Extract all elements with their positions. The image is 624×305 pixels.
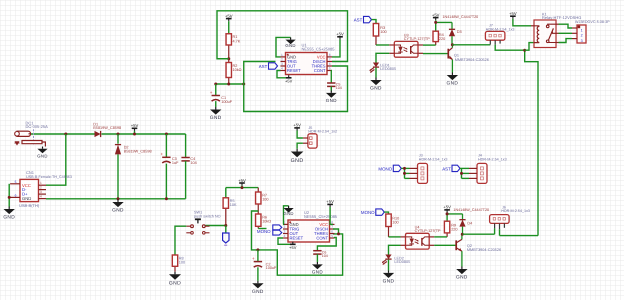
svg-text:+5V: +5V — [509, 11, 517, 16]
svg-text:+5V: +5V — [131, 123, 139, 128]
net label AST at U1 OUT — [269, 63, 278, 69]
svg-text:MONO: MONO — [257, 229, 271, 234]
resistor R3 100 — [375, 36, 377, 45]
svg-text:AST: AST — [354, 18, 363, 23]
wire R6 to TRIG flags — [258, 228, 266, 230]
svg-text:B5819W_C8598: B5819W_C8598 — [93, 126, 121, 130]
svg-text:USB-B(TH): USB-B(TH) — [19, 203, 40, 208]
svg-text:CYTLP-127(TP: CYTLP-127(TP — [404, 37, 430, 41]
ground for R8 — [169, 272, 181, 287]
svg-text:GND: GND — [456, 275, 468, 281]
svg-text:5: 5 — [15, 180, 17, 184]
svg-text:1: 1 — [581, 28, 583, 32]
wire Q2 collector node — [461, 234, 463, 239]
svg-text:D4: D4 — [467, 221, 472, 225]
wire R3 to opto anode — [376, 44, 389, 46]
svg-text:GND: GND — [210, 115, 222, 121]
power flag +5V mono — [238, 178, 246, 186]
ground for USB shell — [3, 207, 15, 221]
svg-text:+5V: +5V — [293, 123, 301, 128]
ground for C6 — [312, 262, 323, 275]
svg-text:GND: GND — [383, 279, 395, 285]
wire GND rail — [46, 198, 186, 200]
power flag +5V for R1 — [225, 13, 233, 21]
wire rail after D1 — [102, 133, 186, 135]
ground flag above U1 — [276, 37, 291, 57]
transistor Q1 MMBT3904 — [423, 53, 448, 55]
wires J3 tie — [401, 167, 409, 169]
svg-text:100: 100 — [179, 261, 185, 265]
svg-text:5: 5 — [331, 234, 333, 238]
svg-text:GND: GND — [326, 98, 337, 103]
svg-text:3: 3 — [40, 190, 42, 194]
svg-text:3: 3 — [281, 62, 283, 66]
svg-text:HDR-M-2.54_1x3: HDR-M-2.54_1x3 — [486, 27, 515, 31]
capacitor C6 104 at U2 CONT — [317, 238, 336, 251]
wire R7/R6 node to C2 and THRES loop — [252, 211, 343, 275]
svg-text:4.7K: 4.7K — [233, 39, 241, 43]
wire opto collector to R4 — [423, 44, 436, 46]
wire switch to R8 — [175, 226, 186, 255]
svg-text:4: 4 — [284, 234, 286, 238]
svg-text:6: 6 — [15, 193, 17, 197]
svg-text:+5V: +5V — [289, 245, 297, 250]
transistor Q2 MMBT3904 — [434, 244, 456, 246]
resistor R8 100 — [174, 266, 176, 271]
wire DISCH to THRES U2 — [333, 229, 339, 234]
svg-text:GND: GND — [312, 270, 323, 275]
ground for LED2 — [383, 270, 395, 284]
CN1 shell pins 5 6 — [10, 183, 20, 185]
svg-text:100uF: 100uF — [266, 266, 277, 270]
svg-text:3: 3 — [284, 230, 286, 234]
wire R2 to C1 node — [216, 83, 244, 85]
DC jack DC1 DC-005-25A — [15, 129, 46, 146]
node R1-R2 DISCH — [227, 57, 230, 60]
svg-text:HDR-M-2.54_1x2: HDR-M-2.54_1x2 — [308, 130, 337, 134]
svg-text:GND: GND — [285, 43, 295, 48]
ground for C1 — [210, 107, 222, 121]
+5V at U1 VCC — [332, 39, 340, 57]
svg-text:NE555_C5+25085: NE555_C5+25085 — [304, 214, 338, 219]
svg-text:HDR-M-2.54_1x3: HDR-M-2.54_1x3 — [478, 157, 507, 161]
svg-text:+5V: +5V — [336, 32, 344, 37]
svg-text:+5V: +5V — [326, 199, 334, 204]
USB connector CN1 USB-B-Female-TH_C46363 — [20, 179, 39, 201]
wire loop bottom to J6 pin2 — [500, 235, 539, 237]
svg-text:4: 4 — [40, 195, 42, 199]
svg-text:2: 2 — [40, 186, 42, 190]
ground on rail — [112, 200, 124, 214]
ground for DC jack sleeve — [37, 147, 47, 159]
svg-text:+: + — [210, 90, 213, 95]
svg-text:MONO: MONO — [361, 210, 375, 215]
svg-text:MMBT3904-C20526: MMBT3904-C20526 — [455, 58, 489, 62]
svg-text:+5V: +5V — [443, 205, 451, 210]
capacitor C2 100uF — [257, 250, 259, 262]
svg-text:CONT: CONT — [316, 236, 328, 241]
resistor R2 10k — [228, 59, 230, 63]
diode D1 B5819W_C8598 — [95, 131, 101, 137]
wire opto collector to R9 — [434, 236, 447, 238]
svg-text:+5V: +5V — [285, 78, 293, 83]
ground for C2 — [252, 281, 264, 295]
ground flag above U2 — [283, 206, 289, 225]
svg-text:MMBT3904-C20526: MMBT3904-C20526 — [467, 248, 501, 252]
svg-text:WJ3EDGVC-5.08-3P: WJ3EDGVC-5.08-3P — [575, 20, 610, 24]
svg-text:5: 5 — [329, 67, 331, 71]
svg-text:2: 2 — [281, 58, 283, 62]
net flag down at switch node — [225, 226, 227, 233]
wire Q2 collector to J6 pin1 — [463, 233, 495, 235]
net label MONO at U2 TRIG — [273, 225, 282, 230]
wire collector to J7 pin1 — [452, 44, 490, 46]
svg-text:104: 104 — [336, 86, 342, 90]
svg-text:10kΩ: 10kΩ — [233, 68, 242, 72]
svg-text:10K: 10K — [230, 203, 237, 207]
svg-text:RESET: RESET — [290, 236, 304, 241]
svg-text:GND: GND — [447, 81, 459, 87]
svg-text:220: 220 — [451, 228, 457, 232]
junction GND rail — [117, 197, 120, 200]
wire Q1 collector node — [451, 45, 453, 48]
wire +5V rail from DC jack — [30, 133, 94, 135]
svg-text:+5V: +5V — [432, 12, 440, 17]
svg-text:GND: GND — [252, 289, 264, 295]
svg-text:+: + — [160, 152, 163, 157]
wire Q1 emitter to ground — [451, 60, 453, 73]
ground for LED1 — [370, 78, 382, 92]
svg-text:8: 8 — [329, 53, 331, 57]
svg-text:CYTLP-127(TP: CYTLP-127(TP — [415, 229, 441, 233]
svg-text:+5V: +5V — [238, 178, 246, 183]
CN1 right pin stubs — [39, 184, 47, 186]
svg-text:2: 2 — [284, 225, 286, 229]
net label MONO bottom — [376, 209, 385, 215]
wire from rail to USB VCC — [46, 134, 66, 185]
svg-text:6: 6 — [329, 62, 331, 66]
+5V for J5 — [293, 123, 301, 131]
svg-text:D3: D3 — [457, 30, 462, 34]
svg-text:1uF: 1uF — [172, 161, 179, 165]
LED LED2 LED0805 — [389, 245, 401, 254]
resistor R6 10k — [257, 226, 259, 228]
wire TRIG THRES net — [244, 62, 348, 112]
svg-text:6: 6 — [331, 230, 333, 234]
wire right loop down — [525, 50, 538, 235]
svg-text:1N4148W_C4447T20: 1N4148W_C4447T20 — [443, 15, 479, 19]
svg-text:+: + — [252, 256, 255, 261]
svg-text:100: 100 — [380, 30, 386, 34]
op IC U1 NE555 — [286, 53, 328, 75]
node junction DC out — [64, 133, 67, 136]
svg-text:220: 220 — [439, 37, 445, 41]
svg-text:GND: GND — [283, 211, 293, 216]
wire J6 pin1 down to Q2 wire — [494, 228, 496, 234]
svg-text:4: 4 — [281, 67, 283, 71]
svg-text:1: 1 — [40, 181, 42, 185]
svg-text:104: 104 — [190, 161, 196, 165]
relay coil — [534, 26, 539, 43]
wire J6 pin2 to loop wire — [499, 229, 501, 235]
resistor R5 10K — [225, 188, 227, 198]
svg-text:GND: GND — [37, 153, 47, 158]
resistor R9 220 — [446, 233, 448, 237]
svg-text:CONT: CONT — [314, 68, 326, 73]
wires J4 tie — [460, 167, 469, 169]
svg-text:DC-005-25A: DC-005-25A — [26, 124, 49, 129]
wire shell to ground — [8, 184, 10, 207]
capacitor C3 1uF — [165, 133, 168, 136]
svg-text:GND: GND — [370, 86, 382, 92]
svg-text:GND: GND — [3, 215, 15, 221]
resistor R7 100 — [257, 188, 259, 192]
wire R10 to opto U4 — [389, 236, 401, 238]
capacitor C4 104 — [185, 134, 187, 158]
svg-text:7: 7 — [329, 58, 331, 62]
net label AST at J4 — [452, 165, 460, 171]
svg-text:1N4148W_C4447T20: 1N4148W_C4447T20 — [453, 208, 489, 212]
svg-text:100: 100 — [262, 198, 268, 202]
svg-text:100uF: 100uF — [221, 100, 232, 104]
svg-text:2: 2 — [581, 34, 583, 38]
svg-text:push switch NO: push switch NO — [194, 215, 221, 219]
svg-text:MONO: MONO — [378, 166, 392, 171]
+5V at U2 VCC — [326, 199, 334, 207]
power flag +5V on rail — [131, 123, 139, 131]
IC U2 NE555 — [288, 220, 330, 242]
svg-text:10kΩ: 10kΩ — [262, 220, 271, 224]
capacitor C5 104 at U1 CONT — [330, 71, 333, 84]
wire +5V row mono — [226, 187, 258, 189]
resistor R10 100 — [388, 227, 390, 237]
svg-text:LED0805: LED0805 — [394, 260, 410, 264]
net label AST top — [364, 16, 372, 22]
wires relay to terminal — [559, 24, 573, 28]
diode D4 flyback — [462, 214, 464, 220]
diode D3 flyback — [451, 22, 453, 29]
ground for J5 — [297, 143, 303, 149]
svg-text:100: 100 — [392, 221, 398, 225]
ground for C5 — [326, 91, 337, 104]
svg-text:HDR-M-2.54_1x3: HDR-M-2.54_1x3 — [501, 209, 530, 213]
switch SW1 push switch NO — [206, 225, 226, 227]
+5V at U1 RESET — [277, 71, 289, 78]
LED LED1 LED0805 — [376, 53, 389, 62]
wire J7 pin2 to relay junction — [495, 45, 525, 50]
relay pin stubs — [531, 25, 534, 27]
wire DISCH net loop — [217, 11, 348, 62]
wire AST to R3 — [372, 20, 377, 24]
svg-text:NE555_C5+25085: NE555_C5+25085 — [302, 46, 336, 51]
svg-text:1: 1 — [281, 53, 283, 57]
+5V bottom driver — [443, 205, 451, 213]
svg-text:AST: AST — [442, 166, 451, 171]
net label MONO at J3 — [393, 165, 401, 171]
+5V at U2 RESET — [278, 238, 293, 244]
resistor R1 4.7K — [228, 45, 230, 59]
+5V top driver — [432, 12, 440, 20]
diode D2 B5819W_C8598 to ground — [117, 133, 120, 136]
svg-text:+5V: +5V — [225, 13, 233, 18]
relay contact — [546, 24, 556, 42]
resistor R4 220 — [435, 42, 437, 46]
svg-text:B5819W_C8598: B5819W_C8598 — [124, 149, 152, 153]
svg-text:GND: GND — [169, 281, 181, 287]
+5V for relay — [509, 11, 517, 19]
net flag at U2 OUT — [273, 230, 282, 235]
capacitor C1 100uF — [215, 84, 217, 96]
svg-text:3: 3 — [581, 39, 583, 43]
svg-text:GND: GND — [112, 208, 124, 214]
svg-text:LED0805: LED0805 — [380, 67, 396, 71]
svg-text:RESET: RESET — [287, 68, 301, 73]
svg-text:GND: GND — [22, 196, 31, 201]
wire MONO to R10 — [384, 212, 388, 214]
svg-text:HDR-M-2.54_1x3: HDR-M-2.54_1x3 — [419, 157, 448, 161]
svg-text:AST: AST — [259, 64, 268, 69]
svg-text:104: 104 — [322, 254, 328, 258]
svg-text:USB-B-Female-TH_C46363: USB-B-Female-TH_C46363 — [26, 175, 72, 179]
svg-text:GND: GND — [291, 158, 304, 164]
wire Q2 emitter ground — [461, 251, 463, 266]
